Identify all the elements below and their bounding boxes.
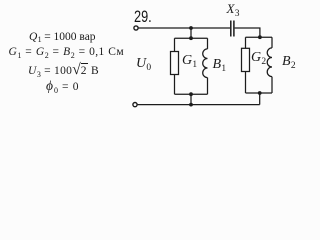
resistor G2: [242, 48, 250, 71]
junction node bottom wire / section1: [189, 103, 193, 107]
terminal top-left: [134, 26, 138, 30]
parameter line Q1 = 1000 var: [29, 32, 96, 44]
wire bottom: [137, 104, 259, 106]
loop1 left wire: [174, 38, 176, 94]
terminal bottom-left: [133, 103, 137, 107]
junction node loop1 top: [189, 36, 193, 40]
resistor G1: [171, 52, 179, 75]
capacitor X3 plates: [231, 21, 234, 37]
label B2: [282, 55, 295, 69]
label U0 (source voltage): [136, 57, 151, 71]
loop2 right wire: [271, 37, 273, 93]
inductor B1: [203, 49, 208, 78]
loop1 right wire: [207, 38, 209, 94]
wire connector section2 bottom: [259, 93, 261, 105]
loop2 left wire: [245, 37, 247, 93]
loop1 bottom: [175, 93, 208, 95]
loop2 bottom: [246, 92, 273, 94]
loop1 top: [175, 37, 208, 39]
parameter line U3 = 100 sqrt2 V: [28, 63, 99, 78]
wire top (capacitor to section 2 corner): [235, 28, 260, 37]
junction node loop1 bottom: [189, 92, 193, 96]
parameter line phi0 = 0: [46, 82, 79, 94]
inductor B2: [267, 48, 272, 77]
parameter line G1 = G2 = B2 = 0,1 Sm: [9, 47, 124, 59]
loop2 top: [246, 36, 273, 38]
wire connector section1 bottom: [190, 94, 192, 104]
junction node top wire / section1: [189, 26, 193, 30]
label G1: [182, 54, 197, 68]
label B1: [213, 58, 226, 72]
junction node loop2 bottom: [258, 91, 262, 95]
problem number 29.: [134, 8, 152, 25]
junction node loop2 top: [258, 35, 262, 39]
wire connector section1 top: [190, 28, 192, 38]
label X3 (capacitor): [227, 2, 240, 16]
label G2: [251, 51, 266, 65]
wire top (terminal to capacitor): [138, 27, 230, 29]
